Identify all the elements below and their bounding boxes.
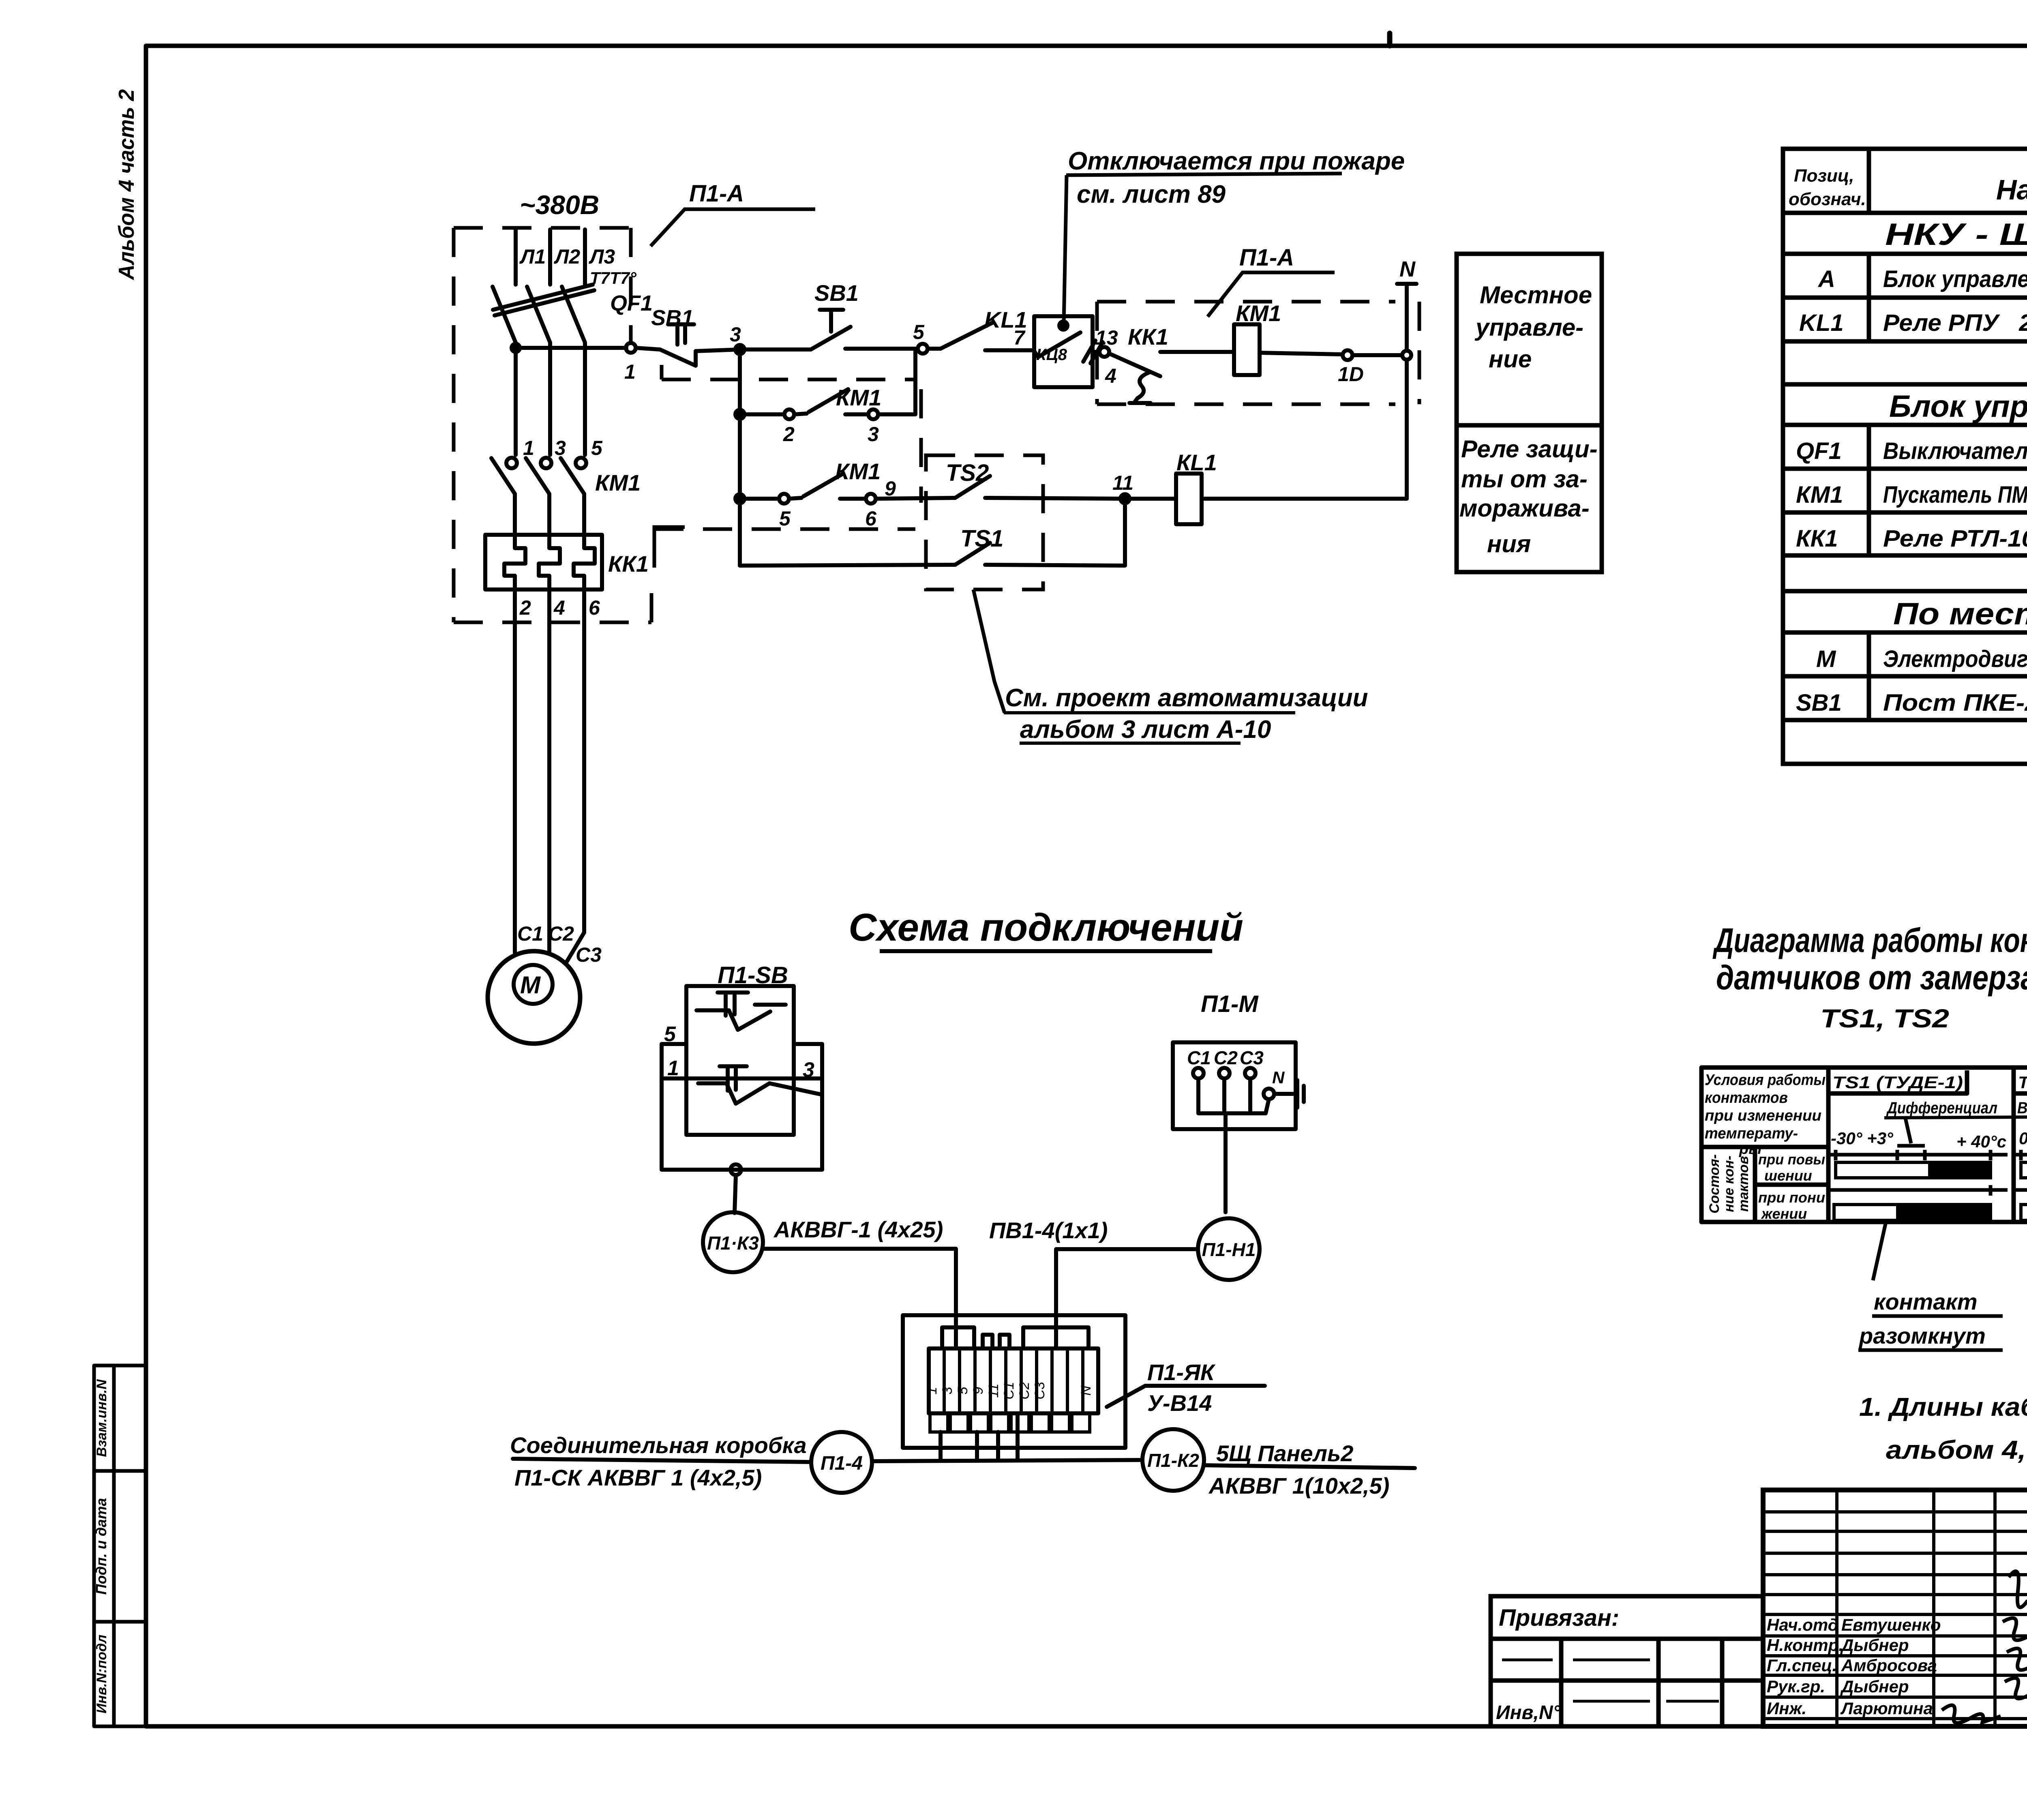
wire down: [735, 1175, 736, 1213]
svg-text:2: 2: [519, 596, 531, 619]
junction rung2: [735, 410, 744, 419]
junction rung3: [735, 494, 744, 503]
wire: [840, 497, 866, 501]
svg-text:КМ1: КМ1: [1796, 482, 1843, 508]
svg-text:КЦ8: КЦ8: [1036, 346, 1067, 364]
svg-text:3: 3: [555, 437, 566, 459]
svg-text:Нач.отд: Нач.отд: [1767, 1615, 1838, 1634]
svg-text:Инв,N°: Инв,N°: [1496, 1702, 1561, 1724]
svg-text:1. Длины кабелей приведены на: 1. Длины кабелей приведены на листах 12÷…: [1859, 1392, 2027, 1421]
button station inner box: [686, 986, 794, 1135]
svg-text:4: 4: [553, 596, 565, 619]
svg-text:П1-ЯК: П1-ЯК: [1147, 1359, 1216, 1385]
svg-text:П1-А: П1-А: [1239, 244, 1294, 271]
contactor KM1 main pole: [506, 458, 517, 468]
svg-text:Выключатель АЕ2026-10НУЗ-Б,Jр=: Выключатель АЕ2026-10НУЗ-Б,Jр=3,15А: [1883, 438, 2027, 464]
ground wire: [1274, 1092, 1296, 1096]
pushbutton SB1 start blade: [811, 327, 851, 349]
thermal contact KK1 blade: [1109, 354, 1160, 376]
junction box П1-ЯК outer: [903, 1315, 1125, 1448]
svg-text:С1: С1: [517, 922, 543, 945]
svg-text:КК1: КК1: [608, 551, 649, 577]
leader left: [1873, 1222, 1886, 1280]
svg-text:SB1: SB1: [814, 280, 859, 306]
svg-text:По месту: По месту: [1893, 597, 2027, 631]
wire: [696, 349, 740, 351]
TS1 bar row2: [1834, 1205, 1898, 1220]
svg-text:Л2: Л2: [554, 245, 580, 268]
wire: [876, 498, 955, 499]
signature 3: [2007, 1649, 2027, 1670]
wire phase bus x=1357: [548, 229, 552, 285]
terminal C2: [1219, 1068, 1230, 1078]
terminal circle: [731, 1164, 741, 1175]
cable wire: [763, 1249, 956, 1348]
cable entry small1: [983, 1335, 992, 1348]
привязан block: [1491, 1596, 1763, 1726]
bottom cable bus: [872, 1460, 1142, 1461]
svg-text:См. проект автоматизации: См. проект автоматизации: [1005, 684, 1368, 712]
terminal 5: [918, 344, 928, 354]
svg-text:ПВ1-4(1х1): ПВ1-4(1х1): [989, 1218, 1108, 1243]
breaker QF1 pole blade: [562, 287, 585, 343]
svg-text:3: 3: [803, 1058, 814, 1082]
vertical bus from junction 3: [738, 349, 742, 566]
signature 1: [2009, 1571, 2027, 1607]
wire: [985, 498, 1125, 499]
svg-text:разомкнут: разомкнут: [1858, 1323, 1986, 1348]
svg-text:Электродвигатель4А71В2; 1,1кВт: Электродвигатель4А71В2; 1,1кВт~380В: [1883, 646, 2027, 672]
wire: [985, 348, 1034, 352]
svg-text:Инж.: Инж.: [1767, 1699, 1806, 1718]
wire: [1125, 497, 1176, 501]
svg-text:Евтушенко: Евтушенко: [1841, 1615, 1941, 1634]
motor M: [488, 951, 580, 1044]
svg-text:контакт: контакт: [1874, 1289, 1978, 1314]
svg-text:АКВВГ-1 (4х25): АКВВГ-1 (4х25): [773, 1217, 943, 1242]
svg-text:Л1: Л1: [519, 245, 546, 268]
svg-text:+ 40°с: + 40°с: [1956, 1132, 2006, 1151]
svg-text:П1-К2: П1-К2: [1147, 1450, 1199, 1471]
cable to left: [513, 1459, 811, 1462]
svg-text:N: N: [1272, 1068, 1285, 1087]
svg-text:У-В14: У-В14: [1147, 1390, 1212, 1416]
svg-text:ния: ния: [1487, 530, 1531, 557]
svg-text:КМ1: КМ1: [595, 470, 641, 495]
terminal C1: [1193, 1068, 1204, 1078]
svg-text:управле-: управле-: [1474, 314, 1583, 341]
svg-text:11: 11: [986, 1383, 1001, 1398]
svg-text:С2: С2: [548, 922, 574, 945]
button2 fixed wire: [698, 1078, 786, 1083]
svg-text:при изменении: при изменении: [1705, 1107, 1821, 1124]
break marks: [1083, 341, 1103, 363]
TS1 header box: [1830, 1070, 1967, 1093]
svg-text:Диаграмма работы контактов: Диаграмма работы контактов: [1712, 921, 2027, 959]
svg-text:С2: С2: [1017, 1382, 1032, 1400]
svg-text:М: М: [1816, 646, 1836, 672]
terminal 2: [784, 409, 794, 419]
svg-text:ТS2: ТS2: [946, 460, 989, 486]
wire inside box: [1034, 351, 1038, 357]
TS2 bar row1: [2021, 1162, 2027, 1178]
svg-text:КМ1: КМ1: [836, 385, 881, 410]
svg-text:5: 5: [913, 321, 925, 343]
link line to 3: [769, 1083, 822, 1095]
svg-text:контактов: контактов: [1705, 1089, 1788, 1106]
left col divider: [1701, 1145, 1828, 1149]
svg-text:Привязан:: Привязан:: [1499, 1605, 1619, 1631]
button1 blade: [729, 1010, 770, 1030]
svg-text:С3: С3: [576, 943, 602, 966]
terminal 13: [1099, 347, 1109, 357]
svg-text:Взам.инв.N: Взам.инв.N: [94, 1379, 109, 1457]
circle П1-4: [811, 1432, 872, 1493]
svg-text:П1-СК АКВВГ 1 (4х2,5): П1-СК АКВВГ 1 (4х2,5): [514, 1465, 762, 1490]
cable entry right: [1023, 1327, 1088, 1348]
svg-text:шении: шении: [1764, 1167, 1812, 1184]
svg-text:1D: 1D: [1338, 363, 1364, 386]
svg-text:альбом 3 лист А-10: альбом 3 лист А-10: [1020, 716, 1271, 744]
TS2 axis: [2015, 1153, 2027, 1157]
terminal band line: [662, 1076, 822, 1080]
wire: [845, 412, 868, 416]
stem down: [1223, 1113, 1228, 1212]
wire main rung: [516, 346, 626, 350]
diagram table frame: [1701, 1068, 2027, 1222]
circle П1-К3: [703, 1212, 763, 1272]
svg-text:жении: жении: [1761, 1205, 1807, 1222]
button station outer box: [662, 1044, 822, 1170]
wire: [789, 498, 801, 499]
svg-text:Пускатель ПМЛ110004В,ПКЛ2204,U: Пускатель ПМЛ110004В,ПКЛ2204,Uкат~220В: [1883, 482, 2027, 508]
terminal strip: [929, 1348, 1098, 1413]
svg-text:11: 11: [1112, 472, 1133, 494]
motor terminal box: [1173, 1042, 1296, 1129]
label П1-А (control): [1208, 272, 1335, 317]
row2 axes: [1830, 1188, 2008, 1192]
contact TS2 blade: [955, 476, 990, 498]
svg-text:1: 1: [924, 1387, 940, 1395]
junction 11: [1121, 494, 1129, 503]
svg-text:С1: С1: [1187, 1047, 1211, 1068]
N terminal tick: [1397, 282, 1416, 286]
contact KM1 aux blade: [809, 389, 848, 412]
TS1 bar row1: [1836, 1162, 1930, 1178]
circle П1-К2: [1142, 1429, 1204, 1491]
left margin stamp boxes: [94, 1366, 146, 1471]
wire C3: [567, 590, 584, 962]
wire pole x=1443: [583, 343, 587, 455]
svg-text:ние: ние: [1489, 345, 1532, 373]
KK1 heater element: [574, 535, 595, 590]
underlines: [1872, 1314, 2003, 1318]
svg-text:Схема подключений: Схема подключений: [849, 906, 1243, 949]
svg-text:5: 5: [955, 1387, 971, 1394]
parts list table: [1783, 46, 2027, 764]
svg-text:П1-4: П1-4: [821, 1453, 863, 1474]
wire rung2 right: [878, 349, 915, 414]
svg-text:датчиков от замерзания: датчиков от замерзания: [1716, 958, 2027, 997]
svg-text:Местное: Местное: [1480, 281, 1592, 309]
coil KL1: [1176, 474, 1202, 524]
contact KC8 blade: [1039, 332, 1080, 357]
svg-text:КМ1: КМ1: [835, 459, 881, 484]
svg-text:Амбросова: Амбросова: [1841, 1656, 1937, 1675]
junction on leader: [1059, 322, 1067, 330]
terminal 1: [626, 343, 636, 353]
svg-text:КК1: КК1: [1796, 525, 1838, 552]
svg-text:при повы: при повы: [1758, 1151, 1825, 1168]
svg-text:3: 3: [730, 323, 741, 346]
terminal 3a: [868, 409, 878, 419]
svg-text:Рук.гр.: Рук.гр.: [1767, 1677, 1825, 1696]
svg-text:М: М: [520, 971, 541, 999]
wire: [928, 347, 941, 351]
svg-text:Реле РПУ 2-М96220 УЗБ: Реле РПУ 2-М96220 УЗБ: [1883, 310, 2027, 336]
relay contact KL1 blade: [941, 323, 992, 349]
svg-text:С3: С3: [1032, 1382, 1048, 1400]
svg-text:6: 6: [589, 596, 600, 619]
leader to TS note: [973, 590, 1005, 713]
svg-text:ты от за-: ты от за-: [1461, 465, 1588, 493]
wire: [1260, 353, 1343, 354]
svg-text:1: 1: [523, 437, 534, 459]
wire: [740, 347, 811, 352]
wire: [1352, 353, 1402, 357]
svg-text:альбом 4, часть 1: альбом 4, часть 1: [1886, 1435, 2027, 1464]
svg-text:ТS2 (ТУДЕ-4): ТS2 (ТУДЕ-4): [2018, 1073, 2027, 1092]
cable entry small2: [1000, 1335, 1009, 1348]
svg-text:КL1: КL1: [1176, 450, 1217, 475]
svg-text:Блок управления: Блок управления: [1889, 389, 2027, 424]
svg-text:Отключается при пожаре: Отключается при пожаре: [1068, 147, 1405, 175]
svg-text:5Щ Панель2: 5Щ Панель2: [1216, 1441, 1353, 1466]
pushbutton SB1 stop blade: [660, 349, 696, 366]
wires to bottom bus: [941, 1413, 1018, 1460]
junction 3: [735, 345, 744, 354]
dashed box TS sensors: [926, 455, 1043, 590]
ground symbol: [1297, 1080, 1304, 1108]
wire: [985, 499, 1125, 566]
top centering tick: [1387, 33, 1393, 46]
KK1 heater element: [504, 535, 525, 590]
svg-text:при пони: при пони: [1758, 1189, 1825, 1206]
svg-text:Реле РТЛ-100704С: Реле РТЛ-100704С: [1883, 525, 2027, 552]
svg-text:SB1: SB1: [1796, 690, 1842, 716]
svg-text:Инв.N:подл: Инв.N:подл: [94, 1635, 109, 1714]
button2 actuator: [720, 1066, 747, 1091]
signature 4: [2005, 1678, 2027, 1699]
svg-text:KL1: KL1: [1799, 310, 1844, 336]
terminal C3: [1245, 1068, 1256, 1078]
svg-text:N: N: [1078, 1385, 1094, 1396]
svg-text:А: А: [1817, 266, 1835, 292]
wire pole x=1357: [548, 343, 552, 455]
svg-text:Гл.спец.: Гл.спец.: [1767, 1656, 1837, 1675]
svg-text:Ларютина: Ларютина: [1840, 1699, 1933, 1718]
svg-text:4: 4: [1105, 364, 1116, 387]
svg-text:Л3: Л3: [589, 245, 615, 268]
svg-text:Дифференциал: Дифференциал: [1886, 1099, 1997, 1117]
svg-text:Блок управления Б5130-2474ГУХЛ: Блок управления Б5130-2474ГУХЛ4: [1883, 266, 2027, 292]
svg-text:ТS1 (ТУДЕ-1): ТS1 (ТУДЕ-1): [1832, 1073, 1963, 1092]
svg-text:Дыбнер: Дыбнер: [1840, 1636, 1909, 1655]
thermal relay KK1 heaters box: [485, 535, 602, 590]
N bus: [1405, 284, 1409, 499]
local control box: [1457, 254, 1602, 572]
svg-text:моражива-: моражива-: [1459, 495, 1590, 522]
svg-text:5: 5: [779, 507, 791, 530]
KK1 heater element: [539, 535, 560, 590]
contactor KM1 main pole: [576, 458, 586, 468]
svg-text:SB1: SB1: [651, 306, 694, 330]
svg-text:Альбом 4 часть 2: Альбом 4 часть 2: [114, 89, 139, 281]
svg-text:5: 5: [664, 1023, 676, 1046]
svg-text:П1-Н1: П1-Н1: [1202, 1239, 1256, 1260]
thermal contact KK1 squiggle: [1129, 372, 1151, 403]
button1 actuator: [718, 993, 748, 1016]
svg-text:Условия работы: Условия работы: [1705, 1072, 1826, 1089]
svg-text:Дыбнер: Дыбнер: [1840, 1677, 1909, 1696]
svg-text:7: 7: [1013, 326, 1026, 349]
svg-text:13: 13: [1095, 326, 1118, 349]
button1 fixed wire: [696, 1005, 786, 1010]
wire pole x=1272: [514, 343, 518, 455]
circle П1-Н1: [1198, 1218, 1260, 1280]
dashed boundary bottom: [654, 527, 915, 531]
dashed boundary local control: [662, 378, 915, 382]
svg-text:-30° +3°: -30° +3°: [1831, 1129, 1894, 1148]
pushbutton SB1 stop actuator: [668, 324, 694, 345]
svg-text:ТS1, ТS2: ТS1, ТS2: [1820, 1004, 1949, 1033]
left grid rows: [1763, 1510, 2027, 1513]
svg-text:Выбирается при наладке: Выбирается при наладке: [2017, 1099, 2027, 1117]
svg-text:температу-: температу-: [1705, 1125, 1798, 1142]
breaker QF1 pole blade: [493, 287, 516, 343]
coil KM1: [1234, 324, 1260, 375]
button2 blade: [726, 1083, 769, 1104]
label П1-А (power panel): [651, 209, 815, 246]
dashed boundary П1-А power panel: [454, 228, 651, 622]
cable to right: [1204, 1465, 1415, 1468]
lower lugs: [930, 1413, 948, 1432]
svg-text:3: 3: [868, 423, 879, 446]
terminal strip dividers: [943, 1348, 946, 1413]
svg-text:2: 2: [783, 423, 795, 446]
contact KM1 aux2 blade: [804, 474, 843, 496]
TS1 axis: [1830, 1153, 2008, 1157]
svg-text:Н.контр.: Н.контр.: [1767, 1636, 1843, 1655]
wire rung3: [740, 497, 779, 501]
svg-text:9: 9: [971, 1387, 986, 1394]
wire C2: [547, 590, 551, 954]
svg-text:Подп. и дата: Подп. и дата: [93, 1498, 109, 1595]
svg-text:П1-М: П1-М: [1201, 991, 1259, 1017]
wire TS1 rung: [740, 565, 955, 566]
svg-text:ние кон-: ние кон-: [1721, 1155, 1737, 1212]
svg-text:П1-А: П1-А: [689, 180, 744, 207]
cable wire: [1056, 1249, 1198, 1348]
junction on phase L1: [512, 344, 520, 352]
junction N bus: [1402, 351, 1411, 360]
wire: [845, 347, 918, 351]
TS2 header box: [2015, 1070, 2027, 1093]
svg-text:С1: С1: [1001, 1382, 1017, 1399]
svg-text:~380В: ~380В: [520, 190, 599, 220]
svg-text:тактов: тактов: [1736, 1156, 1751, 1211]
svg-text:N: N: [1399, 257, 1416, 281]
svg-text:см. лист 89: см. лист 89: [1077, 180, 1226, 208]
wire phase bus x=1443: [583, 229, 587, 285]
wire rung2: [740, 412, 784, 416]
svg-text:НКУ - Щит 5Щ: НКУ - Щит 5Щ: [1885, 217, 2027, 252]
fire interlock box: [1034, 316, 1093, 387]
contact TS1 blade: [955, 543, 990, 565]
svg-text:П1·К3: П1·К3: [707, 1233, 759, 1254]
svg-text:1: 1: [624, 360, 636, 383]
svg-text:QF1: QF1: [1796, 438, 1842, 464]
svg-text:Состоя-: Состоя-: [1707, 1154, 1722, 1213]
wire: [636, 348, 660, 349]
svg-text:С2: С2: [1214, 1047, 1238, 1068]
dashed boundary П1-А control: [1097, 302, 1419, 404]
svg-text:КК1: КК1: [1128, 324, 1168, 349]
terminal 5a: [779, 494, 789, 504]
wire phase bus x=1272: [514, 229, 518, 285]
wire: [794, 414, 807, 414]
bracket corner near KK1 box: [654, 527, 685, 568]
breaker QF1 pole blade: [527, 287, 550, 343]
left grid verticals: [1837, 1490, 1995, 1726]
svg-text:ТS1: ТS1: [960, 525, 1003, 552]
svg-text:Наименование: Наименование: [1996, 174, 2027, 206]
breaker QF1 tie bar: [493, 285, 593, 310]
pushbutton SB1 start actuator: [820, 310, 843, 332]
terminal 6: [866, 494, 876, 504]
svg-text:0° 30°: 0° 30°: [2019, 1129, 2027, 1148]
svg-text:6: 6: [865, 507, 877, 530]
wire: [1093, 350, 1099, 354]
label leader П1-ЯК: [1107, 1386, 1265, 1407]
svg-text:АКВВГ 1(10х2,5): АКВВГ 1(10х2,5): [1208, 1473, 1389, 1498]
svg-text:С3: С3: [1240, 1047, 1264, 1068]
TS2 bar row2: [2021, 1205, 2027, 1220]
svg-text:КМ1: КМ1: [1236, 300, 1281, 326]
contactor KM1 main pole: [541, 458, 551, 468]
title block outer: [1763, 1490, 2027, 1726]
svg-text:обознач.: обознач.: [1789, 189, 1866, 209]
svg-text:1: 1: [667, 1057, 679, 1080]
svg-text:Соединительная коробка: Соединительная коробка: [510, 1432, 807, 1458]
svg-text:5: 5: [591, 437, 603, 459]
svg-text:Реле защи-: Реле защи-: [1461, 435, 1598, 463]
signature 5: [1942, 1705, 2001, 1723]
svg-text:Позиц,: Позиц,: [1794, 166, 1854, 186]
wire C1: [513, 590, 517, 953]
TS1 differential bracket: [1897, 1144, 1925, 1148]
svg-text:Пост ПКЕ-212-2УЗ: Пост ПКЕ-212-2УЗ: [1883, 690, 2027, 716]
cable entry left: [942, 1327, 974, 1348]
signature 2: [2003, 1618, 2027, 1641]
wire: [1202, 497, 1407, 501]
terminal N: [1264, 1089, 1274, 1099]
leader wire to fire contact: [1064, 175, 1067, 324]
wires to bus: [1198, 1078, 1269, 1113]
terminal 10: [1343, 350, 1352, 360]
wire: [1160, 350, 1234, 354]
svg-text:3: 3: [940, 1387, 955, 1394]
